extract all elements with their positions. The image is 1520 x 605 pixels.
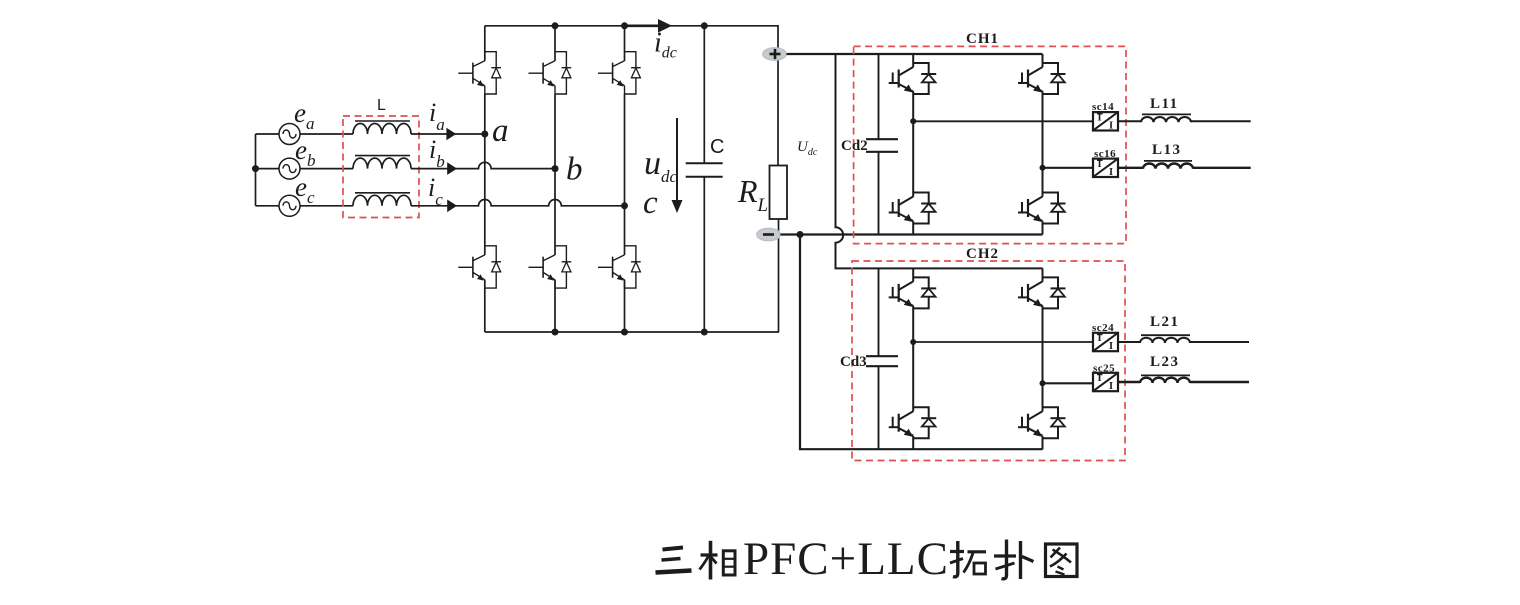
wire plus bus to CH2 (836, 54, 1043, 268)
converter sc14 (1093, 112, 1118, 131)
igbt Q5 (598, 52, 641, 94)
wire CH2 left leg (912, 268, 914, 281)
inductor L11 (1141, 114, 1191, 122)
wire leg a lower (484, 280, 486, 332)
wire eb-left (256, 168, 280, 170)
wire sc16 to L13 (1118, 167, 1143, 169)
svg-text:I: I (1098, 159, 1102, 170)
inductor L13 (1143, 161, 1193, 169)
wire CH2 mid-right to sc25 (1043, 382, 1094, 384)
arrow udc (672, 118, 683, 213)
wire L13 out (1193, 167, 1251, 169)
svg-text:L21: L21 (1150, 314, 1180, 330)
converter sc25 (1093, 373, 1118, 392)
node top-c (621, 22, 628, 29)
wire minus rail (781, 233, 1043, 235)
node a (481, 131, 488, 138)
capacitor Cd2 (866, 54, 898, 235)
node top-cap (701, 22, 708, 29)
wire ec-left (256, 205, 280, 207)
converter sc16 (1093, 159, 1118, 178)
ac source eb (279, 158, 300, 179)
svg-text:L11: L11 (1150, 96, 1179, 112)
node bot-c (621, 329, 628, 336)
wire leg a upper (484, 26, 486, 61)
wire CH2 mid-left to sc24 (913, 341, 1093, 343)
wire plus rail CH1 (787, 53, 1043, 55)
svg-text:b: b (566, 152, 583, 188)
dashed box CH2 (852, 261, 1125, 461)
wire ea-left (256, 133, 280, 135)
svg-text:I: I (1109, 167, 1113, 178)
igbt Q3 (529, 52, 572, 94)
wire leg c upper (624, 26, 626, 61)
arrow ia (446, 128, 456, 141)
wire bus to CH2 bottom (800, 235, 1043, 450)
igbt Q1 (458, 52, 501, 94)
wire dc bottom rail (485, 331, 779, 333)
igbt Q23 (1018, 277, 1066, 308)
node CH2 mid-right (1040, 380, 1046, 386)
node CH2 mid-left (910, 339, 916, 345)
wire sc24 to L21 (1118, 341, 1140, 343)
dashed box CH1 (854, 46, 1126, 243)
node bot-b (552, 329, 559, 336)
wire dc top rail (485, 26, 778, 166)
wire eb to Lb (300, 168, 353, 170)
svg-text:a: a (492, 113, 509, 149)
node top-b (552, 22, 559, 29)
igbt Q21 (889, 277, 937, 308)
wire RL bottom leg (778, 219, 780, 332)
igbt Q13 (1018, 63, 1066, 94)
svg-text:I: I (1098, 333, 1102, 344)
wire L11 out (1191, 120, 1251, 122)
ac source ec (279, 195, 300, 216)
wire ea to La (300, 133, 353, 135)
capacitor Cd3 (866, 268, 898, 449)
svg-text:Cd2: Cd2 (841, 138, 868, 154)
svg-text:CH1: CH1 (966, 31, 999, 47)
svg-text:L23: L23 (1150, 354, 1180, 370)
wire CH2 right leg (1042, 268, 1044, 281)
wire L23 out (1190, 381, 1249, 383)
arrow idc (627, 19, 672, 33)
igbt Q24 (1018, 407, 1066, 438)
capacitor C (686, 26, 723, 332)
svg-text:I: I (1098, 113, 1102, 124)
node CH1 mid-left (910, 118, 916, 124)
igbt Q14 (1018, 193, 1066, 224)
caption char san (656, 548, 692, 573)
converter sc24 (1093, 333, 1118, 352)
inductor L21 (1140, 335, 1190, 343)
node CH1 mid-right (1040, 165, 1046, 171)
ac source ea (279, 124, 300, 145)
wire leg c lower (624, 280, 626, 332)
svg-text:I: I (1098, 373, 1102, 384)
svg-text:c: c (643, 185, 658, 221)
inductor Lc (353, 193, 411, 206)
svg-text:L13: L13 (1152, 142, 1182, 158)
node minus branch (797, 231, 804, 238)
igbt Q12 (889, 193, 937, 224)
wire CH1 mid-right to sc16 (1043, 167, 1094, 169)
wire phase b (411, 162, 555, 168)
igbt Q11 (889, 63, 937, 94)
wire leg b upper (554, 26, 556, 61)
svg-text:C: C (710, 136, 724, 158)
svg-text:L: L (377, 97, 386, 114)
igbt Q4 (529, 246, 572, 288)
wire sc25 to L23 (1118, 381, 1140, 383)
wire CH1 left leg (912, 54, 914, 67)
igbt Q2 (458, 246, 501, 288)
caption char tu (1046, 544, 1078, 577)
wire CH1 mid-left to sc14 (913, 120, 1093, 122)
inductor Lb (353, 156, 411, 169)
svg-text:I: I (1109, 120, 1113, 131)
arrow ib (447, 162, 457, 175)
node c (621, 202, 628, 209)
caption char tuo (950, 541, 986, 577)
node neutral (252, 165, 259, 172)
wire phase a (411, 133, 485, 135)
caption char xiang (700, 541, 736, 580)
terminal minus (757, 228, 781, 241)
wire ec to Lc (300, 205, 353, 207)
arrow ic (447, 200, 457, 213)
wire L21 out (1190, 341, 1249, 343)
wire sc14 to L11 (1118, 120, 1141, 122)
wire leg b mid (554, 94, 556, 255)
svg-text:Cd3: Cd3 (840, 354, 867, 370)
wire neutral bus (255, 134, 257, 206)
caption char pu (994, 540, 1034, 580)
node b (552, 165, 559, 172)
wire phase c (411, 200, 625, 206)
wire CH1 right leg (1042, 54, 1044, 67)
wire leg b lower (554, 280, 556, 332)
inductor La (353, 121, 411, 134)
igbt Q6 (598, 246, 641, 288)
node bot-cap (701, 329, 708, 336)
svg-text:I: I (1109, 341, 1113, 352)
wire leg c mid (624, 94, 626, 255)
dashed box L filter (343, 116, 419, 218)
svg-text:PFC+LLC: PFC+LLC (743, 533, 948, 585)
igbt Q22 (889, 407, 937, 438)
inductor L23 (1140, 375, 1190, 383)
svg-text:I: I (1109, 381, 1113, 392)
resistor RL (770, 166, 788, 220)
terminal plus (763, 48, 787, 61)
svg-text:CH2: CH2 (966, 246, 999, 262)
wire leg a mid (484, 94, 486, 255)
